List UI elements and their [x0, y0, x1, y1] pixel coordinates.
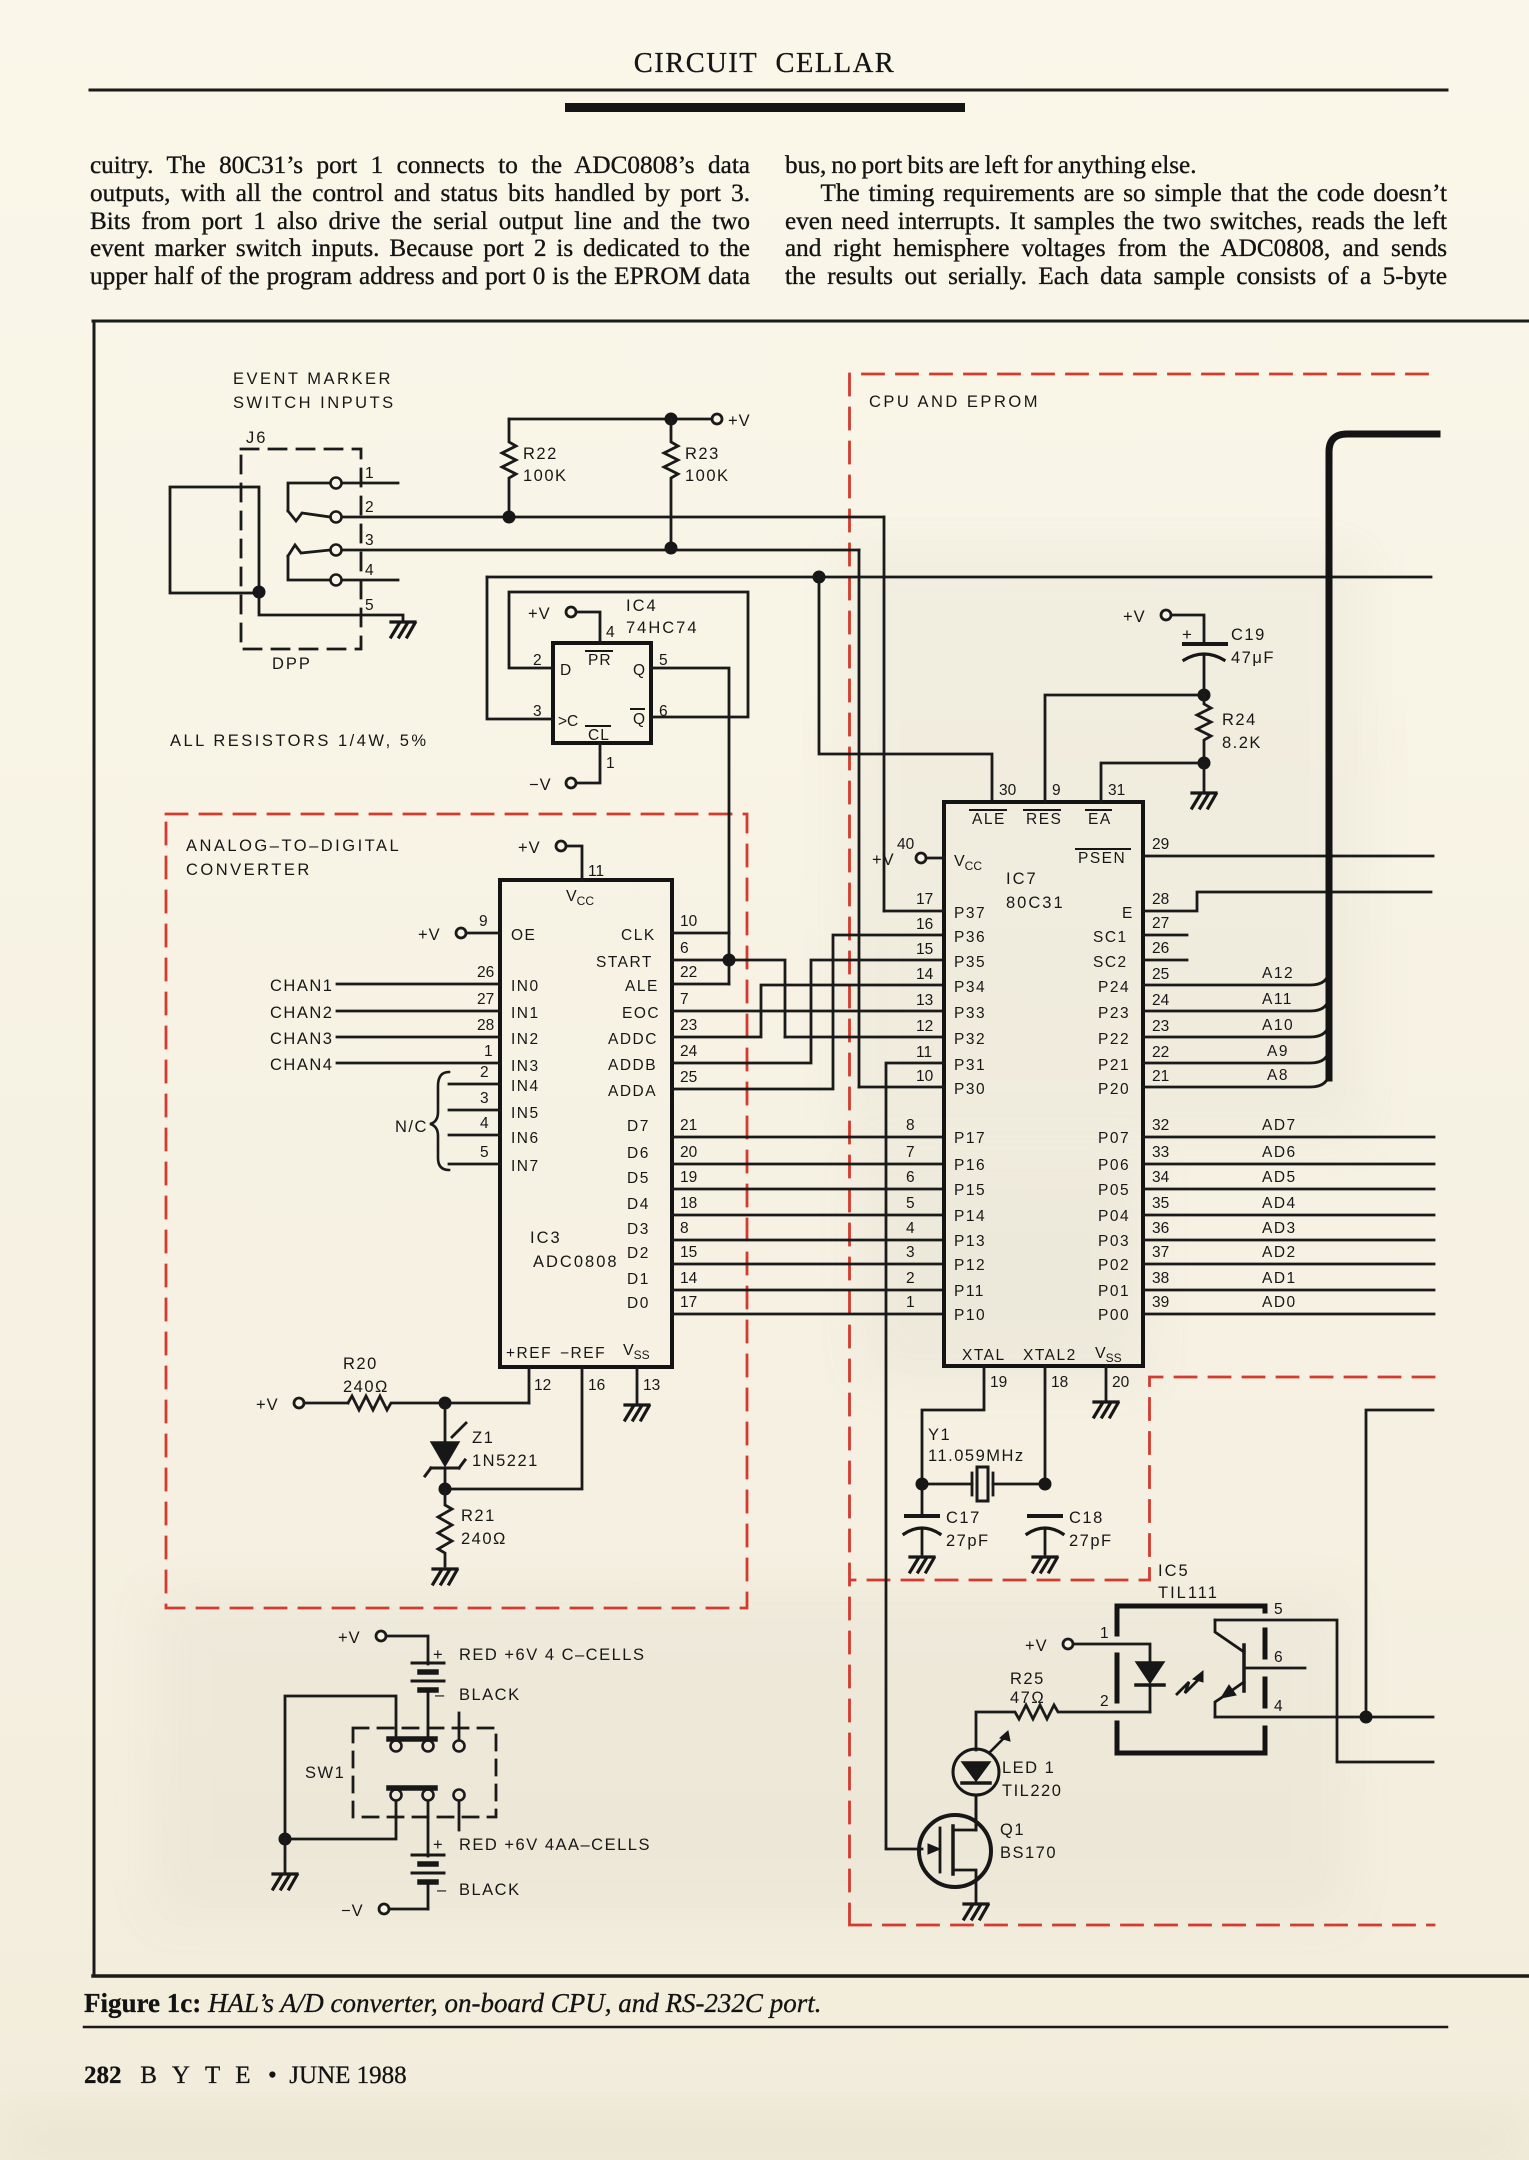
label +V OE [418, 926, 441, 944]
svg-text:27: 27 [477, 991, 494, 1008]
svg-text:28: 28 [477, 1017, 494, 1034]
svg-text:27pF: 27pF [946, 1532, 990, 1550]
pin label 4 [480, 1115, 489, 1132]
label AD6 [1262, 1144, 1297, 1161]
wire ADDA to P36 [672, 935, 944, 1089]
switch contact circle pin3 [331, 545, 342, 556]
svg-text:P13: P13 [954, 1233, 986, 1250]
label START inside [596, 954, 653, 971]
svg-text:BS170: BS170 [1000, 1844, 1057, 1862]
wire START net to P32 [785, 1036, 944, 1039]
svg-text:LED 1: LED 1 [1002, 1759, 1055, 1777]
pin label 23 [680, 1017, 697, 1034]
IC4 +V preset supply [566, 607, 600, 643]
wire pin4 stub [342, 579, 398, 582]
node Z1 top [439, 1397, 452, 1410]
wire AD2 row [1143, 1263, 1434, 1266]
svg-text:BLACK: BLACK [459, 1881, 521, 1899]
svg-text:IC3: IC3 [530, 1229, 562, 1247]
node R24 bottom [1198, 757, 1211, 770]
svg-text:2: 2 [906, 1270, 915, 1287]
labels D7-D0 inside IC3 [627, 1118, 650, 1312]
node C19-R24 [1198, 689, 1211, 702]
svg-text:24: 24 [680, 1043, 698, 1060]
wire SC2 stub pin 26 [1143, 959, 1187, 962]
label CHAN2 [270, 1004, 333, 1022]
svg-text:C17: C17 [946, 1509, 981, 1527]
svg-text:RES: RES [1026, 811, 1062, 828]
wire ADDC to P34 [672, 985, 944, 1037]
dashed box ANALOG-TO-DIGITAL CONVERTER [166, 814, 747, 1608]
wire ALE jog [672, 983, 729, 986]
pin label 19 [990, 1374, 1007, 1391]
svg-text:7: 7 [906, 1144, 915, 1161]
pin labels 25 24 23 22 21 [1152, 966, 1170, 1085]
svg-text:ALL RESISTORS 1/4W, 5%: ALL RESISTORS 1/4W, 5% [170, 732, 429, 750]
pin label 2 [480, 1064, 489, 1081]
pin label 4 [606, 624, 615, 641]
svg-text:VSS: VSS [623, 1342, 650, 1362]
wire AD0 row [1143, 1313, 1434, 1316]
svg-text:2: 2 [1100, 1693, 1109, 1710]
svg-text:4: 4 [365, 562, 374, 579]
body text right column [785, 152, 1447, 291]
svg-text:AD3: AD3 [1262, 1220, 1297, 1237]
ground IC7 Vss [1094, 1402, 1118, 1417]
svg-text:Q: Q [633, 662, 645, 679]
wire XTAL pin 19 to crystal [922, 1366, 984, 1484]
switch SW-A bracket and lever [288, 483, 330, 521]
transistor Q1 BS170 [919, 1795, 991, 1902]
switch pole B contacts [391, 1790, 465, 1801]
label AD4 [1262, 1195, 1297, 1212]
svg-text:Q1: Q1 [1000, 1821, 1025, 1839]
svg-text:+V: +V [256, 1396, 279, 1414]
svg-text:IN4: IN4 [511, 1078, 540, 1095]
wire A12 into bus [1143, 960, 1329, 985]
label battery B2 [433, 1836, 651, 1899]
capacitor C18 [1027, 1516, 1063, 1554]
svg-text:12: 12 [534, 1377, 551, 1394]
wire E pin 28 [1143, 892, 1431, 911]
svg-text:30: 30 [999, 782, 1017, 799]
wire P30 pin 10 [859, 1086, 944, 1089]
svg-text:−V: −V [341, 1902, 364, 1920]
svg-text:24: 24 [1152, 992, 1170, 1009]
resistor R21 [438, 1489, 452, 1566]
label -V battery [341, 1902, 364, 1920]
svg-text:P16: P16 [954, 1157, 986, 1174]
label +V ref [256, 1396, 279, 1414]
figure frame left border [93, 321, 96, 1976]
label CL with overline [586, 726, 610, 744]
svg-text:ALE: ALE [972, 811, 1006, 828]
label AD7 [1262, 1117, 1297, 1134]
pin label 25 [680, 1069, 697, 1086]
wire P37 pin 17 [884, 910, 944, 913]
svg-text:N/C: N/C [395, 1118, 428, 1136]
svg-text:100K: 100K [685, 467, 730, 485]
node R23 bottom on pin3 row [665, 542, 678, 555]
label N/C [395, 1118, 428, 1136]
label AD1 [1262, 1270, 1297, 1287]
page footer [84, 2062, 407, 2090]
svg-text:SC1: SC1 [1093, 929, 1128, 946]
svg-text:IC5: IC5 [1158, 1562, 1190, 1580]
ground battery rail [273, 1874, 297, 1889]
capacitor C17 [904, 1484, 940, 1554]
svg-text:ADDC: ADDC [608, 1031, 658, 1048]
pin label 11 [588, 863, 604, 880]
svg-text:13: 13 [643, 1377, 660, 1394]
svg-text:240Ω: 240Ω [343, 1378, 389, 1396]
pin label 28 [1152, 891, 1169, 908]
svg-text:CHAN2: CHAN2 [270, 1004, 333, 1022]
svg-text:14: 14 [680, 1270, 698, 1287]
IC3 OE supply pin 9 [456, 928, 500, 938]
svg-text:47Ω: 47Ω [1010, 1689, 1045, 1707]
label +V top [728, 412, 751, 430]
svg-text:P11: P11 [954, 1283, 985, 1300]
caption bottom rule [84, 2026, 1447, 2029]
svg-text:74HC74: 74HC74 [626, 619, 699, 637]
svg-text:240Ω: 240Ω [461, 1530, 507, 1548]
node pin4 junction [1360, 1711, 1373, 1724]
label IC4 74HC74 [626, 597, 699, 637]
svg-text:1: 1 [484, 1043, 493, 1060]
label PSEN bar inside [1076, 849, 1130, 867]
N/C brace [430, 1072, 449, 1170]
svg-text:18: 18 [1051, 1374, 1068, 1391]
svg-text:IC4: IC4 [626, 597, 658, 615]
label Vss IC3 [623, 1342, 650, 1362]
wire D6 bus row [672, 1163, 944, 1166]
node START junction [723, 954, 736, 967]
svg-text:P15: P15 [954, 1182, 986, 1199]
svg-text:7: 7 [680, 991, 689, 1008]
label A12 [1262, 965, 1294, 982]
svg-text:40: 40 [897, 836, 915, 853]
label LED1 TIL220 [1002, 1759, 1062, 1800]
svg-text:R22: R22 [523, 445, 558, 463]
label +V IC5 [1025, 1637, 1048, 1655]
label R21 240ohm [461, 1507, 507, 1548]
wire rail to ground [284, 1839, 287, 1872]
label Vcc inside IC7 [954, 853, 982, 873]
wire RES pin 9 [1045, 695, 1204, 802]
svg-text:8: 8 [680, 1220, 689, 1237]
wire pin5 to ground [259, 592, 403, 620]
svg-text:Y1: Y1 [928, 1426, 951, 1444]
wire CHAN1 input [337, 983, 500, 986]
wire D7 bus row [672, 1136, 944, 1139]
label +V Vcc40 [872, 851, 895, 869]
svg-text:11: 11 [916, 1044, 932, 1061]
crystal Y1 [922, 1467, 1045, 1501]
svg-text:P35: P35 [954, 954, 986, 971]
label R20 240ohm [343, 1355, 389, 1396]
wire pin 6 base stub [1244, 1667, 1305, 1670]
pin label 40 [897, 836, 915, 853]
svg-text:21: 21 [1152, 1068, 1169, 1085]
switch pole A open lever [458, 1713, 461, 1740]
wire IN6 stub [449, 1134, 500, 1137]
wire Vss pin 13 to ground [636, 1367, 639, 1403]
ground C17 [910, 1557, 934, 1572]
label C19 47uF [1231, 626, 1275, 667]
svg-text:D7: D7 [627, 1118, 650, 1135]
svg-text:IN1: IN1 [511, 1005, 540, 1022]
wire ALE net long horizontal [487, 576, 1431, 579]
svg-text:SC2: SC2 [1093, 954, 1128, 971]
label >C [558, 713, 578, 730]
DPP plug loop [170, 487, 259, 593]
wire D4 bus row [672, 1214, 944, 1217]
svg-text:EA: EA [1088, 811, 1112, 828]
svg-text:C18: C18 [1069, 1509, 1104, 1527]
svg-text:E: E [1122, 905, 1132, 922]
pin label 22 [680, 964, 697, 981]
wire pin2 to P37 vertical [883, 517, 886, 911]
svg-text:P01: P01 [1098, 1283, 1130, 1300]
pin label 29 [1152, 836, 1169, 853]
svg-text:1: 1 [606, 755, 615, 772]
wire A10 into bus [1143, 1012, 1329, 1037]
wire pin3 to P30 vertical [858, 550, 861, 1087]
svg-text:OE: OE [511, 927, 536, 944]
label EOC inside [622, 1005, 660, 1022]
opto IC5 TIL111 box [1117, 1606, 1265, 1753]
svg-text:A10: A10 [1262, 1017, 1294, 1034]
svg-text:BLACK: BLACK [459, 1686, 521, 1704]
pin label 6 [1274, 1649, 1283, 1666]
label R23 100K [685, 445, 730, 485]
svg-text:25: 25 [1152, 966, 1169, 983]
label -V IC4 [529, 776, 552, 794]
wire AD5 row [1143, 1188, 1434, 1191]
figure frame top border [93, 320, 1529, 323]
svg-text:PR: PR [588, 652, 612, 669]
wire RS232 feed from right [1366, 1410, 1433, 1717]
note ALL RESISTORS 1/4W, 5% [170, 732, 429, 750]
wire IN7 stub [449, 1163, 500, 1166]
pin label 3 [480, 1090, 489, 1107]
pin label 31 EA [1108, 782, 1125, 799]
pin label 4 [1274, 1698, 1283, 1715]
svg-text:VCC: VCC [566, 888, 594, 908]
label A9 [1267, 1043, 1289, 1060]
switch pole B open lever [458, 1801, 461, 1830]
node R23 top [665, 413, 678, 426]
wire SC1 stub pin 27 [1143, 934, 1187, 937]
svg-text:Z1: Z1 [472, 1429, 494, 1447]
wire Qbar feedback to D [509, 592, 748, 717]
ground J6 pin 5 [391, 622, 415, 637]
svg-text:5: 5 [659, 652, 668, 669]
pin label 6 [680, 940, 689, 957]
svg-text:P03: P03 [1098, 1233, 1130, 1250]
ground C18 [1033, 1557, 1057, 1572]
label E inside [1122, 905, 1132, 922]
+V supply node top [509, 414, 722, 424]
node junction DPP-pin5 [253, 586, 266, 599]
svg-text:EVENT MARKER: EVENT MARKER [233, 370, 393, 388]
svg-text:+V: +V [338, 1629, 361, 1647]
svg-text:1: 1 [906, 1294, 915, 1311]
ground IC3 Vss [625, 1405, 649, 1420]
svg-text:>C: >C [558, 713, 578, 730]
node R22 bottom on pin2 row [503, 511, 516, 524]
pin label 20 [1112, 1374, 1130, 1391]
svg-text:4: 4 [906, 1220, 915, 1237]
pin label 9 [479, 913, 488, 930]
svg-text:+V: +V [872, 851, 895, 869]
resistor R22 [502, 419, 516, 517]
svg-text:XTAL2: XTAL2 [1023, 1347, 1077, 1364]
label +REF [506, 1345, 552, 1362]
label +V battery [338, 1629, 361, 1647]
label ALE bar inside [970, 810, 1006, 828]
body text left column [90, 152, 750, 291]
switch SW-B bracket and lever [288, 545, 330, 580]
svg-text:+V: +V [518, 839, 541, 857]
svg-text:+V: +V [728, 412, 751, 430]
svg-text:10: 10 [680, 913, 698, 930]
labels P07-P00 inside [1098, 1130, 1130, 1324]
svg-text:3: 3 [365, 532, 374, 549]
svg-text:–: – [437, 1881, 448, 1899]
-V battery terminal [379, 1904, 428, 1914]
node ground rail junction [279, 1833, 292, 1846]
node crystal left [916, 1478, 929, 1491]
svg-text:23: 23 [680, 1017, 697, 1034]
svg-text:−V: −V [529, 776, 552, 794]
svg-text:CPU AND EPROM: CPU AND EPROM [869, 393, 1040, 411]
svg-text:R25: R25 [1010, 1670, 1045, 1688]
svg-text:20: 20 [1112, 1374, 1130, 1391]
svg-text:IN6: IN6 [511, 1130, 540, 1147]
wire PSEN pin 29 [1143, 855, 1433, 858]
svg-text:100K: 100K [523, 467, 568, 485]
wire IN5 stub [449, 1109, 500, 1112]
svg-text:AD2: AD2 [1262, 1244, 1297, 1261]
svg-text:–: – [435, 1686, 446, 1704]
svg-text:+REF: +REF [506, 1345, 552, 1362]
svg-text:RED +6V 4 C–CELLS: RED +6V 4 C–CELLS [459, 1646, 645, 1664]
svg-text:A11: A11 [1262, 991, 1293, 1008]
label XTAL2 inside [1023, 1347, 1077, 1364]
wire EA pin 31 [1101, 763, 1204, 802]
pin label 13 [643, 1377, 660, 1394]
svg-text:IN0: IN0 [511, 978, 540, 995]
pin label 7 [680, 991, 689, 1008]
wire IN4 stub [449, 1083, 500, 1086]
LED1 indicator [953, 1749, 999, 1830]
svg-text:9: 9 [479, 913, 488, 930]
svg-text:P04: P04 [1098, 1208, 1130, 1225]
svg-text:+: + [433, 1646, 444, 1664]
wire P31 to Q1 gate [886, 1063, 944, 1849]
label CHAN3 [270, 1030, 333, 1048]
pin label 1 [1100, 1625, 1109, 1642]
label battery B1 [433, 1646, 645, 1704]
label Q1 BS170 [1000, 1821, 1057, 1862]
label IC5 TIL111 [1158, 1562, 1219, 1602]
dashed box CPU AND EPROM [850, 374, 1435, 1925]
svg-text:12: 12 [916, 1018, 933, 1035]
label Q [633, 662, 645, 679]
svg-text:36: 36 [1152, 1220, 1169, 1237]
svg-text:25: 25 [680, 1069, 697, 1086]
svg-text:XTAL: XTAL [962, 1347, 1006, 1364]
svg-text:20: 20 [680, 1144, 698, 1161]
pin label 1 [365, 465, 374, 482]
wire CLK to IC4 Q [672, 932, 729, 935]
svg-text:8: 8 [906, 1117, 915, 1134]
label AD3 [1262, 1220, 1297, 1237]
svg-text:A9: A9 [1267, 1043, 1289, 1060]
IC7 Vcc supply pin 40 [916, 853, 944, 863]
+V reference supply [294, 1398, 348, 1408]
svg-text:P32: P32 [954, 1031, 986, 1048]
wire pin1 stub [342, 482, 398, 485]
label ANALOG-TO-DIGITAL CONVERTER [186, 837, 401, 879]
wire D1 bus row [672, 1289, 944, 1292]
label SW1 [305, 1764, 345, 1782]
switch SW1 dashed box [353, 1728, 496, 1817]
pin label 27 [1152, 915, 1169, 932]
svg-text:AD1: AD1 [1262, 1270, 1297, 1287]
svg-text:Q: Q [633, 711, 645, 728]
pin label 28 [477, 1017, 494, 1034]
wire D5 bus row [672, 1188, 944, 1191]
label IN4-IN7 [511, 1078, 540, 1175]
svg-text:2: 2 [480, 1064, 489, 1081]
svg-text:D4: D4 [627, 1196, 650, 1213]
capacitor C19 supply [1161, 610, 1204, 641]
svg-text:22: 22 [1152, 1044, 1169, 1061]
svg-text:5: 5 [480, 1144, 489, 1161]
wire A11 into bus [1143, 986, 1329, 1011]
svg-text:CHAN3: CHAN3 [270, 1030, 333, 1048]
wire ALE net to 80C31 ALE pin [819, 577, 992, 802]
svg-text:PSEN: PSEN [1078, 850, 1126, 867]
svg-text:32: 32 [1152, 1117, 1169, 1134]
svg-text:31: 31 [1108, 782, 1125, 799]
svg-text:CHAN1: CHAN1 [270, 977, 333, 995]
svg-text:R20: R20 [343, 1355, 378, 1373]
svg-text:IN2: IN2 [511, 1031, 540, 1048]
IC3 Vcc supply pin 11 [556, 841, 582, 880]
svg-text:47μF: 47μF [1231, 649, 1275, 667]
svg-text:8.2K: 8.2K [1222, 734, 1262, 752]
svg-text:J6: J6 [246, 429, 267, 447]
pin label 3 [533, 703, 542, 720]
label EA bar inside [1086, 810, 1112, 828]
pin label 6 [659, 703, 668, 720]
svg-text:D0: D0 [627, 1295, 650, 1312]
resistor R20 [348, 1396, 529, 1410]
capacitor C19 polarized [1182, 625, 1226, 695]
resistor R24 [1197, 695, 1211, 763]
node ALE net junction [813, 571, 826, 584]
wire D2 bus row [672, 1263, 944, 1266]
svg-text:16: 16 [916, 916, 933, 933]
wire AD1 row [1143, 1289, 1434, 1292]
svg-text:4: 4 [606, 624, 615, 641]
wire Q output to CLK/START/ALE [651, 668, 729, 984]
svg-text:11: 11 [588, 863, 604, 880]
